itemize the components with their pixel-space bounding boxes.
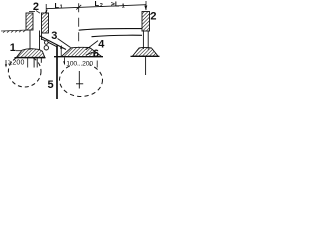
leader of 4 bbox=[86, 41, 98, 50]
up arrow dim bbox=[60, 45, 62, 57]
cable pair lower diagonal bbox=[41, 39, 57, 47]
svg-text:4: 4 bbox=[98, 38, 105, 50]
upper cable run line bbox=[79, 29, 142, 31]
svg-text:≥L: ≥L bbox=[111, 2, 120, 9]
label 2 left bbox=[29, 1, 40, 13]
coupling dome right bbox=[131, 47, 160, 56]
label 2 right bbox=[150, 11, 157, 23]
coupling dome center (6) bbox=[54, 47, 103, 56]
label L2 bbox=[95, 0, 103, 9]
coupling dome left (1) bbox=[15, 49, 46, 58]
label >=L1 bbox=[111, 2, 125, 10]
marker post right (2) bbox=[142, 12, 150, 32]
loop centerline bbox=[76, 71, 83, 89]
leader of 3 (line B) bbox=[58, 39, 71, 48]
label L1 bbox=[55, 1, 63, 11]
svg-text:5: 5 bbox=[48, 79, 54, 91]
cable circles bbox=[44, 41, 48, 50]
svg-text:3: 3 bbox=[51, 30, 57, 42]
dim >=200 bbox=[5, 58, 28, 68]
svg-text:6: 6 bbox=[93, 48, 99, 60]
label 1 bbox=[10, 42, 23, 54]
svg-text:2: 2 bbox=[33, 1, 39, 13]
shaft walls below left posts bbox=[30, 31, 42, 51]
leader of 6 bbox=[86, 52, 93, 55]
marker post left (2) bbox=[26, 13, 33, 30]
svg-text:L: L bbox=[95, 0, 100, 8]
right post buried walls bbox=[143, 31, 148, 50]
svg-text:≥200: ≥200 bbox=[8, 59, 24, 66]
trench slope line A bbox=[40, 36, 67, 50]
svg-text:2: 2 bbox=[150, 11, 156, 23]
marker post left-pair right (2) bbox=[42, 13, 49, 33]
dim arrow left end bbox=[44, 9, 47, 13]
dim arrow right end bbox=[144, 6, 147, 11]
svg-text:1: 1 bbox=[10, 42, 16, 54]
down arrow dim bbox=[63, 58, 66, 66]
left dashed loop bbox=[8, 56, 41, 87]
cable tail below right dome bbox=[145, 57, 147, 75]
lower cable run line bbox=[92, 35, 143, 36]
ground line bbox=[1, 30, 28, 33]
cable tails below left dome bbox=[34, 58, 41, 68]
svg-text:1: 1 bbox=[122, 3, 125, 9]
dim 100...200 bbox=[65, 59, 90, 65]
svg-text:2: 2 bbox=[100, 3, 103, 9]
right dashed loop bbox=[60, 64, 103, 97]
dimension line top bbox=[46, 1, 146, 47]
cable vertical (5) bbox=[56, 46, 58, 100]
svg-text:100...200: 100...200 bbox=[66, 60, 93, 67]
svg-text:1: 1 bbox=[60, 5, 63, 11]
